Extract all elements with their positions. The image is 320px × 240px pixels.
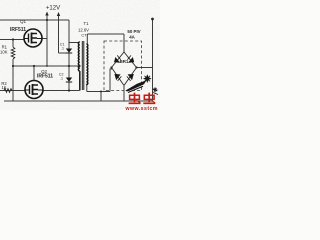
wire secondary top lead: [86, 34, 88, 44]
watermark star cross stroke: [145, 76, 151, 82]
wire Q1 gate line: [0, 39, 25, 41]
watermark character 1: [129, 93, 141, 104]
dashed module box BR1: [104, 41, 142, 91]
wire R1 lower column: [12, 59, 14, 101]
wire +12V top rail: [0, 19, 69, 21]
watermark black logo underline: [128, 86, 143, 92]
diode D1: [66, 49, 72, 54]
bridge diode top-right bar: [127, 55, 131, 59]
bridge diode bottom-right: [128, 74, 134, 80]
wire cross line y66: [13, 65, 80, 67]
watermark star: [143, 74, 152, 83]
wire arrow1 shaft: [46, 14, 48, 20]
wire bridge top vertical: [123, 34, 125, 52]
wire secondary bottom lead: [86, 84, 88, 92]
node Q2 drain diode junction: [68, 89, 70, 91]
wire R1 column: [12, 40, 14, 48]
wire Q2 drain long line: [44, 90, 80, 92]
bridge diode bottom-left bar: [118, 76, 122, 81]
bridge diode bottom-right bar: [127, 76, 131, 81]
transistor Q1: [24, 29, 42, 47]
transformer T1 core: [82, 41, 84, 90]
wire bottom ground rail: [4, 100, 153, 102]
scan noise overlay: [0, 0, 1, 1]
wire D column upper: [68, 53, 70, 66]
wire bridge bottom to rail: [123, 86, 125, 101]
node R1 bottom junction: [12, 65, 14, 67]
node winding tap: [78, 65, 80, 67]
wire bridge right output: [137, 67, 153, 69]
wire bridge left vertex riser: [110, 69, 112, 92]
wire Q1 drain column: [46, 20, 48, 66]
wire Q1 right lead: [42, 38, 47, 40]
wire diode tap horizontal: [59, 52, 70, 54]
diode D2: [66, 78, 72, 83]
wire output right vertical: [152, 19, 154, 101]
transformer T1 primary winding: [78, 42, 79, 91]
wire Q2 gate line: [0, 90, 26, 92]
watermark black logo swoosh: [126, 80, 147, 91]
bridge diode top-left bar: [117, 55, 121, 59]
arrow +12V left: [45, 12, 48, 16]
arrow +12V right: [57, 12, 60, 16]
bridge diode top-right: [128, 57, 134, 63]
transistor Q2: [25, 81, 44, 99]
node bridge right vertex: [135, 66, 137, 68]
wire secondary bottom horizontal: [87, 91, 110, 93]
wire Q2 drain top column: [33, 66, 35, 81]
resistor R2: [4, 89, 12, 93]
node rail crossing: [46, 19, 48, 21]
transformer T1 secondary winding: [86, 44, 87, 85]
bridge diode bottom-left: [114, 74, 120, 80]
wire rail corner down to center tap column: [68, 20, 70, 49]
wire secondary top horizontal: [87, 33, 124, 35]
node center tap junction: [68, 65, 70, 67]
node Q2 drain branch: [33, 65, 35, 67]
wire primary top stub: [69, 42, 79, 44]
bridge diode top-left: [114, 57, 120, 63]
watermark black edge glyph: [153, 87, 158, 94]
watermark character 2: [143, 93, 155, 104]
resistor R1: [11, 47, 15, 59]
node bridge left vertex: [110, 66, 112, 68]
bridge rectifier BR1 diamond: [112, 52, 137, 86]
wire drop to rail: [100, 92, 102, 102]
node output terminal top: [151, 18, 154, 21]
node drain column crossing: [46, 65, 48, 67]
wire D column mid: [68, 66, 70, 78]
node secondary rail drop: [100, 91, 102, 93]
wire D column lower: [68, 82, 70, 91]
node R1 top junction: [12, 38, 14, 40]
wire arrow2 shaft: [58, 15, 60, 53]
